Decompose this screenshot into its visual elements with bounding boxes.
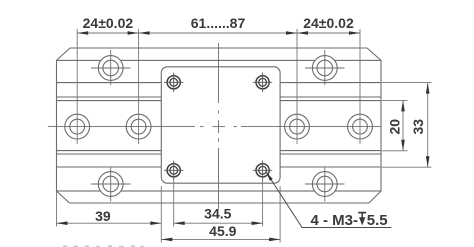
svg-text:61......87: 61......87 (191, 15, 246, 31)
svg-text:4 - M3-: 4 - M3- (311, 212, 359, 229)
svg-text:45.9: 45.9 (209, 223, 236, 239)
svg-text:39: 39 (95, 208, 111, 224)
svg-text:24±0.02: 24±0.02 (303, 15, 354, 31)
svg-text:24±0.02: 24±0.02 (83, 15, 134, 31)
svg-text:20: 20 (387, 119, 403, 135)
svg-text:5.5: 5.5 (367, 212, 388, 229)
svg-text:34.5: 34.5 (204, 206, 231, 222)
svg-text:33: 33 (410, 119, 426, 135)
